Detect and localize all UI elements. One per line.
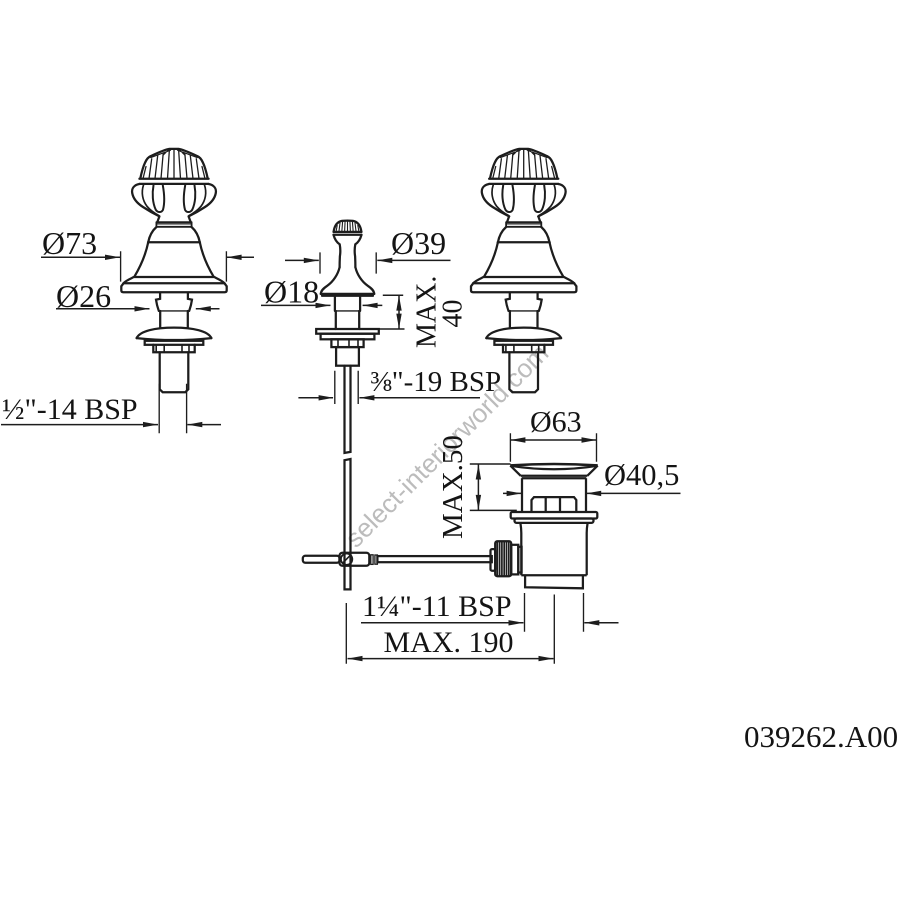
dimension MAX. 190: [346, 595, 554, 664]
nut: [331, 339, 363, 347]
long pull rod lower: [345, 459, 351, 589]
strainer grid: [532, 497, 577, 511]
tap valve left: [121, 149, 226, 392]
svg-text:⅜"-19 BSP: ⅜"-19 BSP: [370, 366, 501, 398]
dimension MAX. 40: [363, 295, 405, 329]
funnel flare: [510, 464, 597, 465]
neck: [335, 296, 360, 311]
tail pipe: [525, 575, 583, 588]
washer plate: [316, 329, 379, 334]
dimension MAX.50: [470, 464, 517, 510]
long pull rod upper: [345, 366, 351, 453]
svg-text:Ø39: Ø39: [391, 225, 446, 261]
svg-text:Ø63: Ø63: [530, 406, 582, 439]
svg-text:Ø73: Ø73: [42, 225, 97, 261]
stem: [334, 235, 362, 267]
dimension Ø26: [56, 308, 220, 310]
svg-text:MAX. 190: MAX. 190: [384, 626, 514, 659]
drain assembly: [510, 464, 597, 588]
dimension 3/8-19 BSP: [298, 371, 480, 404]
svg-text:MAX.50: MAX.50: [437, 435, 469, 539]
flange: [511, 512, 598, 519]
svg-text:1¼"-11 BSP: 1¼"-11 BSP: [362, 590, 512, 623]
flared skirt: [321, 267, 374, 294]
coupler: [371, 555, 373, 565]
svg-text:½"-14 BSP: ½"-14 BSP: [2, 393, 138, 426]
clamp block: [340, 553, 370, 566]
svg-text:Ø40,5: Ø40,5: [604, 458, 679, 492]
horizontal rod: [377, 556, 491, 562]
pop-up lever linkage: [303, 553, 492, 566]
left stub rod: [303, 556, 340, 563]
dimension Ø18: [261, 304, 382, 306]
knurled connector: [491, 541, 522, 576]
tap valve right: [471, 149, 576, 392]
dimension Ø40,5: [503, 492, 681, 494]
threaded stub: [336, 347, 359, 366]
dimension 1 1/4-11 BSP: [361, 593, 619, 632]
small crystal knob: [334, 221, 362, 232]
body: [520, 523, 587, 575]
svg-text:40: 40: [438, 300, 469, 328]
svg-text:039262.A00: 039262.A00: [744, 719, 898, 754]
pop-up waste knob (middle): [316, 221, 379, 590]
clamp screw: [341, 554, 352, 565]
cylinder: [522, 478, 586, 512]
dimension Ø39: [285, 252, 451, 273]
dimension Ø73: [41, 251, 254, 281]
svg-text:Ø18: Ø18: [264, 274, 319, 310]
svg-text:Ø26: Ø26: [56, 278, 111, 314]
dimension Ø63: [510, 433, 596, 462]
dimension 1/2-14 BSP: [1, 384, 221, 434]
